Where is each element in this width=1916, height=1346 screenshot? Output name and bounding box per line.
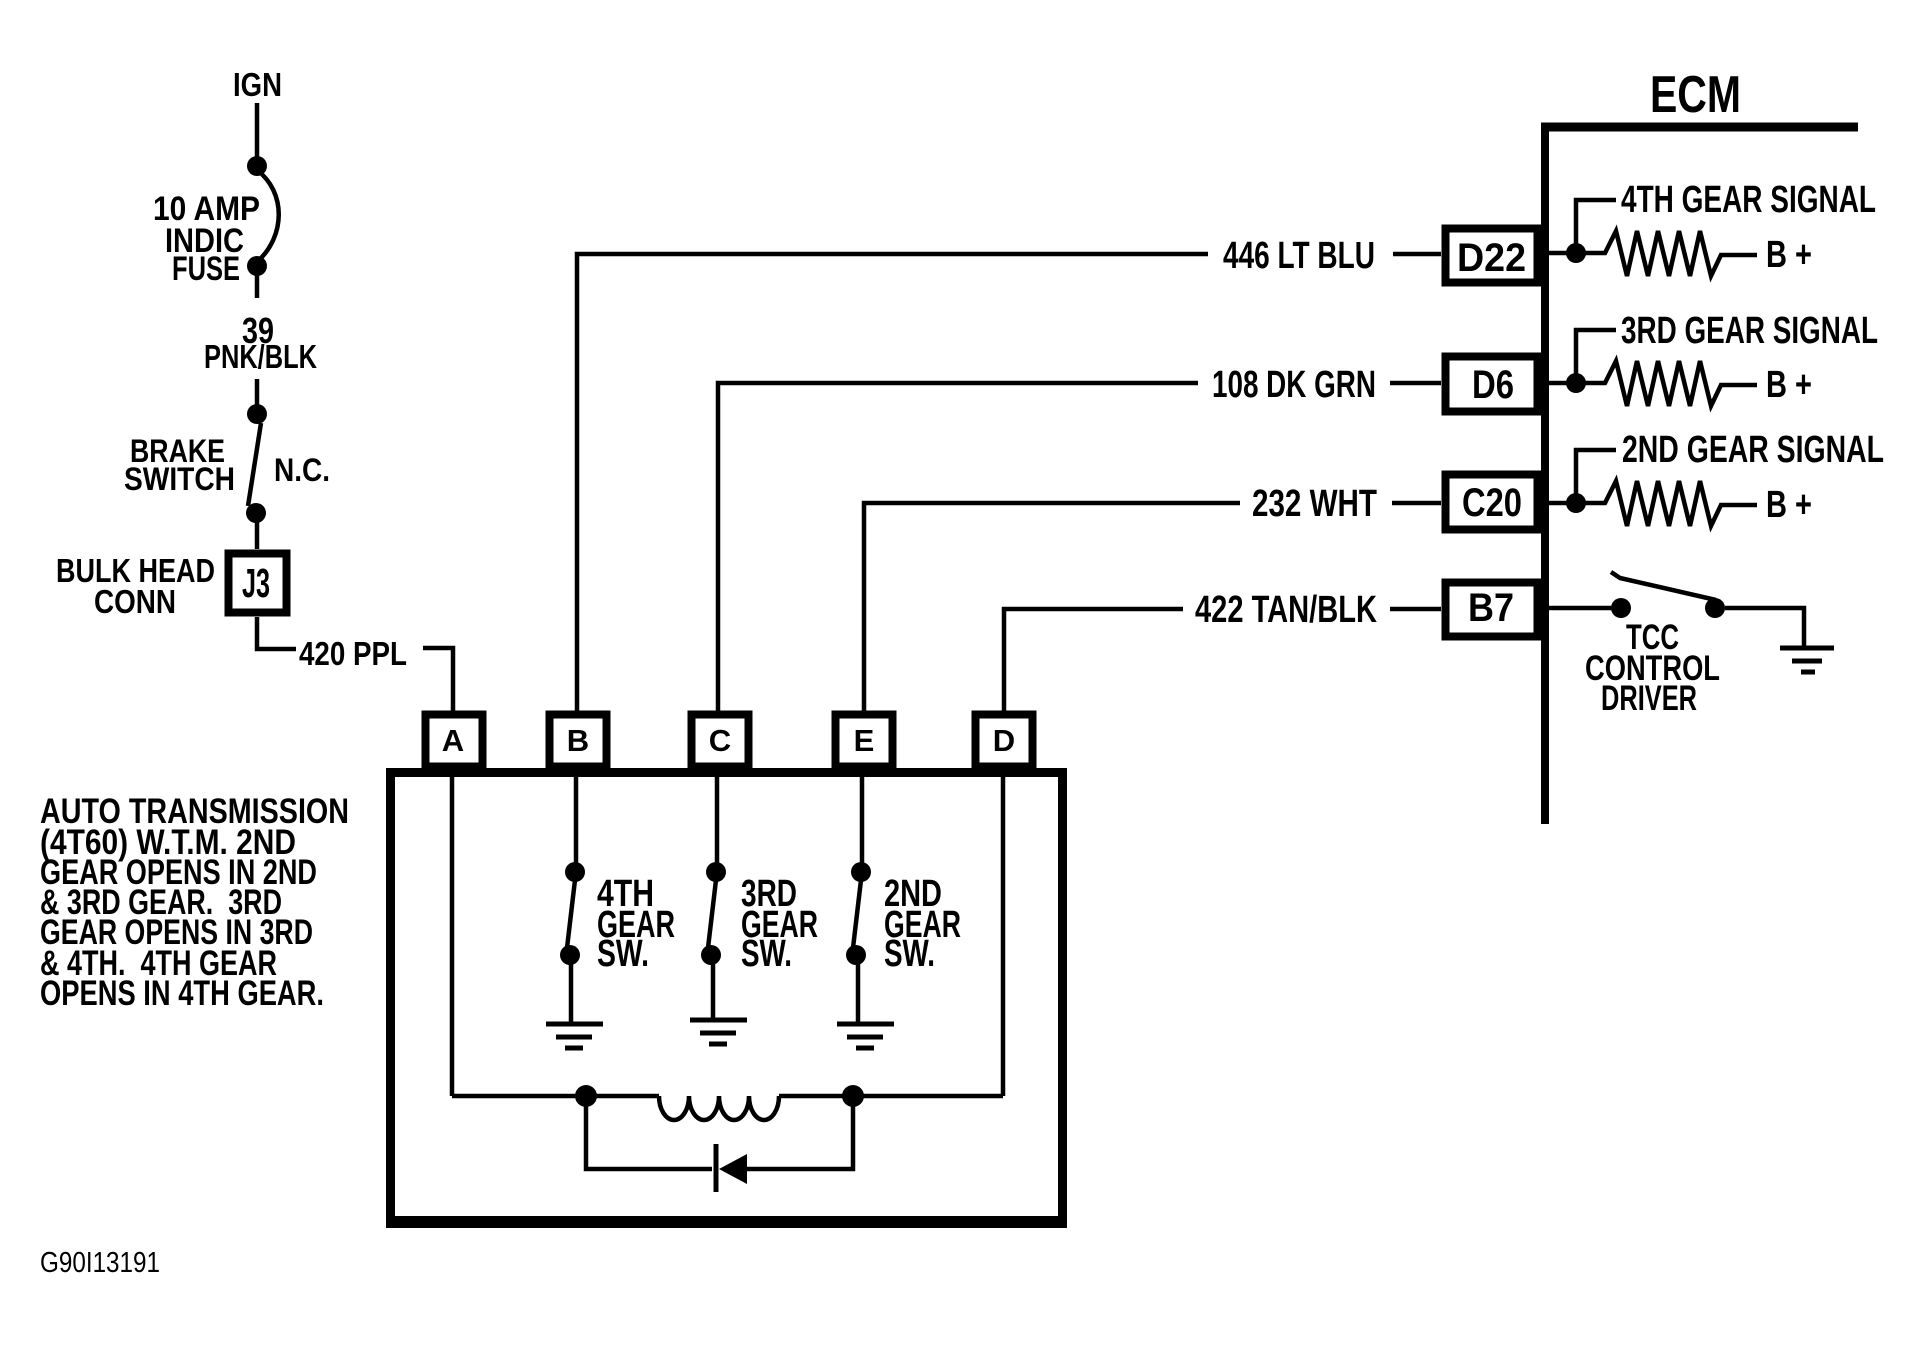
wire pin E to 2nd gear switch [860, 771, 865, 864]
svg-text:SW.: SW. [741, 933, 792, 975]
svg-text:SW.: SW. [884, 933, 935, 975]
svg-text:PNK/BLK: PNK/BLK [204, 338, 317, 375]
connector pin D22 box [1446, 229, 1538, 283]
wire bus to pin D [1001, 771, 1006, 1096]
wire connector D to 422 TAN/BLK [1004, 609, 1183, 712]
junction dot TCC switch left [1611, 598, 1631, 618]
ground 4th gear switch [546, 1024, 603, 1048]
wire resistor bus right [779, 1094, 1003, 1099]
junction dot fuse bottom [247, 256, 267, 276]
svg-text:DRIVER: DRIVER [1601, 679, 1697, 718]
svg-text:A: A [442, 723, 464, 758]
junction dot 3rd gear switch top [706, 862, 726, 882]
svg-text:B: B [567, 723, 589, 758]
svg-text:232 WHT: 232 WHT [1252, 483, 1377, 525]
wire 3rd gear signal tap [1576, 330, 1616, 383]
wire resistor bus left [452, 1094, 659, 1099]
connector pin C box [692, 715, 749, 767]
junction dot D22 node [1566, 243, 1586, 263]
note auto transmission text block [40, 792, 349, 1013]
svg-text:CONN: CONN [94, 583, 176, 620]
wire TCC switch to ground [1725, 608, 1804, 646]
transmission enclosure box [386, 773, 1067, 1225]
svg-text:FUSE: FUSE [172, 250, 240, 288]
connector pin A box [426, 715, 483, 767]
svg-text:4TH GEAR SIGNAL: 4TH GEAR SIGNAL [1621, 179, 1876, 221]
svg-text:SWITCH: SWITCH [124, 461, 235, 497]
wire J3 to 420 PPL label [257, 617, 296, 649]
wire 4th gear switch to ground [569, 963, 574, 1022]
wire C20 to resistor R3 [1549, 481, 1757, 526]
svg-text:D6: D6 [1472, 363, 1514, 407]
svg-text:422 TAN/BLK: 422 TAN/BLK [1195, 589, 1377, 631]
wire 420 PPL to connector A [423, 648, 453, 712]
junction dot bus right node [842, 1085, 864, 1107]
connector pin D box [976, 715, 1033, 767]
svg-text:D: D [993, 723, 1015, 758]
svg-text:C: C [709, 723, 731, 758]
wire connector B to 446 LT BLU [577, 254, 1208, 712]
svg-text:420 PPL: 420 PPL [299, 635, 407, 672]
resistor temperature coil [659, 1096, 779, 1120]
svg-text:IGN: IGN [233, 66, 282, 103]
junction dot brake switch top [247, 404, 267, 424]
connector pin E box [836, 715, 893, 767]
ground 3rd gear switch [690, 1020, 747, 1044]
wire B7 to TCC switch [1549, 606, 1613, 611]
connector pin B box [550, 715, 607, 767]
wire diode branch right [745, 1096, 853, 1169]
wire 39 to brake switch [255, 379, 260, 406]
junction dot 4th gear switch top [565, 862, 585, 882]
wire D6 to resistor R2 [1549, 361, 1757, 406]
junction dot D6 node [1566, 373, 1586, 393]
wire connector E to 232 WHT [864, 503, 1240, 712]
svg-text:OPENS IN 4TH GEAR.: OPENS IN 4TH GEAR. [40, 974, 324, 1013]
wire brake switch to J3 [255, 521, 260, 549]
svg-text:B7: B7 [1468, 586, 1514, 630]
connector pin B7 box [1446, 583, 1538, 637]
svg-text:B +: B + [1766, 364, 1812, 406]
svg-text:B +: B + [1766, 234, 1812, 276]
wire 2nd gear signal tap [1576, 450, 1616, 503]
wire 232 WHT to C20 [1392, 501, 1441, 506]
switch TCC control driver arm [1611, 572, 1716, 600]
svg-text:J3: J3 [242, 560, 270, 606]
svg-text:D22: D22 [1457, 236, 1526, 280]
connector J3 bulkhead box [229, 554, 287, 613]
wire fuse to label 39 [255, 274, 260, 298]
connector pin C20 box [1446, 475, 1538, 530]
switch 4th gear arm [567, 880, 575, 948]
wire IGN feed [255, 103, 260, 158]
junction dot C20 node [1566, 493, 1586, 513]
wire 3rd gear switch to ground [711, 963, 716, 1019]
wire D22 to resistor R1 [1549, 231, 1757, 276]
junction dot TCC switch right [1705, 598, 1725, 618]
wire 4th gear signal tap [1576, 200, 1616, 253]
switch 3rd gear arm [708, 880, 716, 948]
junction dot 3rd gear switch bottom [701, 945, 721, 965]
svg-text:108 DK GRN: 108 DK GRN [1212, 364, 1376, 406]
svg-text:SW.: SW. [597, 933, 649, 975]
switch 2nd gear arm [853, 880, 861, 948]
wire connector C to 108 DK GRN [718, 383, 1198, 712]
svg-text:G90I13191: G90I13191 [40, 1247, 160, 1279]
junction dot bus left node [575, 1085, 597, 1107]
ECM boundary left edge [1541, 123, 1549, 824]
ECM boundary top edge [1541, 123, 1858, 132]
fuse F1 [257, 170, 279, 262]
diode triangle [719, 1154, 747, 1184]
junction dot 2nd gear switch top [851, 862, 871, 882]
svg-text:2ND GEAR SIGNAL: 2ND GEAR SIGNAL [1622, 429, 1884, 471]
ground TCC [1780, 648, 1834, 672]
wire 2nd gear switch to ground [856, 963, 861, 1023]
svg-text:N.C.: N.C. [274, 452, 330, 488]
wire 446 LT BLU to D22 [1393, 252, 1441, 257]
svg-text:C20: C20 [1462, 481, 1522, 525]
junction dot brake switch bottom [246, 503, 266, 523]
wire diode branch left [586, 1096, 712, 1169]
ground 2nd gear switch [837, 1024, 894, 1048]
wire pin C to 3rd gear switch [715, 771, 720, 864]
junction dot 2nd gear switch bottom [846, 945, 866, 965]
junction dot 4th gear switch bottom [560, 945, 580, 965]
switch brake (N.C.) arm [248, 423, 261, 506]
connector pin D6 box [1446, 357, 1538, 412]
svg-text:B +: B + [1766, 484, 1812, 526]
svg-text:446 LT BLU: 446 LT BLU [1223, 235, 1375, 277]
wire pin A to resistor bus [450, 771, 455, 1096]
wire pin B to 4th gear switch [574, 771, 579, 864]
svg-text:3RD GEAR SIGNAL: 3RD GEAR SIGNAL [1621, 310, 1878, 352]
diode cathode bar [714, 1144, 719, 1192]
svg-text:ECM: ECM [1650, 66, 1741, 124]
wire 108 DK GRN to D6 [1390, 381, 1441, 386]
wire 422 TAN/BLK to B7 [1390, 607, 1441, 612]
junction dot fuse top [247, 156, 267, 176]
svg-text:E: E [854, 723, 875, 758]
